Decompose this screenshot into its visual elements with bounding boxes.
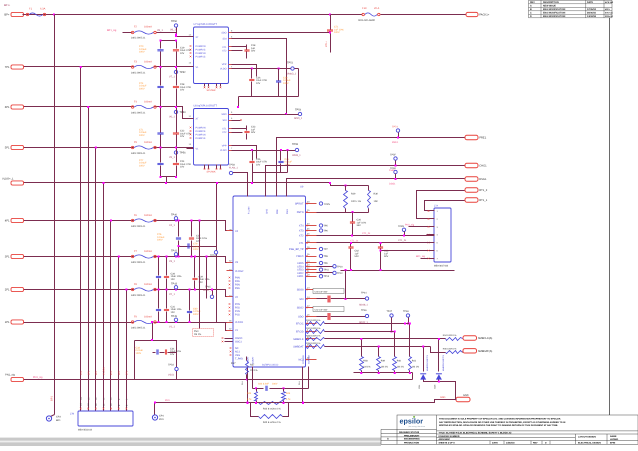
capacitor C70 0.01uF 100V xyxy=(160,41,162,49)
test point TP47 xyxy=(390,314,393,317)
svg-text:SDO8: SDO8 xyxy=(297,289,304,292)
connector 1P1 xyxy=(11,320,24,324)
svg-text:100V: 100V xyxy=(136,352,142,355)
resistor R42 6 mOhm 1% xyxy=(259,402,283,405)
test point TP7 xyxy=(319,247,322,250)
test point TP59 DSG1 xyxy=(394,170,397,173)
svg-text:XT1_2s: XT1_2s xyxy=(398,239,407,242)
svg-text:EFIM: EFIM xyxy=(610,442,615,445)
op-amp U8 bq76PL102RGTT charge pump IC xyxy=(194,109,229,166)
svg-text:SDI: SDI xyxy=(223,38,227,41)
pin VSS stub xyxy=(216,165,218,169)
wire U7 return right xyxy=(298,69,300,97)
svg-text:VLDO+_1: VLDO+_1 xyxy=(2,178,14,181)
svg-text:XT2: XT2 xyxy=(222,131,227,134)
capacitor C23 1uF 50V xyxy=(232,128,247,130)
wire RT1_2 to J7A pin 2 xyxy=(417,191,465,219)
svg-text:TP52: TP52 xyxy=(180,71,187,74)
wire diode GND path xyxy=(424,380,457,400)
pin PUMP1N mark xyxy=(190,52,192,54)
svg-text:GND: GND xyxy=(440,396,446,399)
svg-text:DSG1: DSG1 xyxy=(479,178,487,181)
svg-text:5P1: 5P1 xyxy=(95,370,98,375)
svg-text:1M 1%: 1M 1% xyxy=(194,333,201,336)
pin PUMP1S mark xyxy=(190,137,192,139)
svg-text:V3_1: V3_1 xyxy=(169,260,175,263)
svg-text:MMBZ5232B7TG: MMBZ5232B7TG xyxy=(442,354,445,371)
svg-text:50V: 50V xyxy=(355,255,360,258)
svg-text:COPACK: COPACK xyxy=(308,354,311,364)
pin VSS stub xyxy=(204,84,206,87)
svg-text:4030216SC: 4030216SC xyxy=(439,438,451,441)
svg-text:VPP: VPP xyxy=(222,63,227,66)
svg-text:R34 100R 1%: R34 100R 1% xyxy=(443,334,457,337)
fuse F4 160mA xyxy=(134,105,154,110)
wire U8 VLDO to TP55 xyxy=(232,150,296,152)
wire U8 SDO xyxy=(232,114,287,116)
svg-text:DESCRIPTION: DESCRIPTION xyxy=(543,1,559,4)
svg-text:PS3: PS3 xyxy=(194,330,199,333)
svg-text:TP44: TP44 xyxy=(361,291,367,294)
svg-text:SDO: SDO xyxy=(221,113,226,116)
svg-text:A: A xyxy=(387,438,389,441)
fuse F8 160mA xyxy=(134,287,154,292)
connector J7A M50-3017442 xyxy=(434,208,451,262)
svg-text:V7_1: V7_1 xyxy=(169,76,175,79)
svg-text:PUMP1S: PUMP1S xyxy=(196,137,206,140)
svg-text:BP1_sig: BP1_sig xyxy=(107,29,117,32)
svg-text:BP+: BP+ xyxy=(4,14,10,17)
wire XT1_1s rail xyxy=(317,242,435,244)
svg-text:BT1+: BT1+ xyxy=(325,41,328,47)
capacitor C25 10uF X7R 10V xyxy=(252,151,254,161)
svg-text:SDO8_1: SDO8_1 xyxy=(359,304,369,307)
svg-text:TP40: TP40 xyxy=(171,213,178,216)
connector RT1_1 xyxy=(465,198,478,202)
svg-text:TP47: TP47 xyxy=(387,310,393,313)
wire BP1_sig stub xyxy=(123,32,133,34)
op-amp U9 bq78PL114S12 battery management IC xyxy=(233,196,306,367)
svg-text:6.3A: 6.3A xyxy=(40,8,46,11)
test point TPP6 XT1_2s xyxy=(402,228,405,231)
test point TPP5 xyxy=(319,202,322,205)
resistor R41 1M 1% xyxy=(409,324,411,357)
svg-text:R29: R29 xyxy=(351,193,356,196)
test point TP56 V5_1 xyxy=(176,148,178,151)
svg-text:M50-3511442: M50-3511442 xyxy=(78,429,93,432)
svg-text:MMBZ5232B7TG: MMBZ5232B7TG xyxy=(426,354,429,371)
capacitor C29 0.01uF 100V xyxy=(278,69,280,81)
svg-text:RT1_2: RT1_2 xyxy=(479,189,488,192)
resistor R37 1M 1% xyxy=(246,357,248,361)
svg-text:3P1: 3P1 xyxy=(5,256,10,259)
connector PRE1 xyxy=(465,135,478,139)
pin U9 OSCO stub xyxy=(225,338,233,340)
svg-text:R40: R40 xyxy=(397,360,402,363)
capacitor C30 1nF 50V inline xyxy=(327,296,331,303)
component PS3 1M 1% xyxy=(193,329,214,337)
test point TP51 Vldo3_1 xyxy=(291,67,294,70)
svg-text:P_LAN: P_LAN xyxy=(248,206,251,214)
svg-text:TP54: TP54 xyxy=(295,108,302,111)
svg-text:TP59: TP59 xyxy=(390,167,396,170)
capacitor C76 0.01uF 100V xyxy=(178,221,180,237)
svg-text:6P1: 6P1 xyxy=(5,106,10,109)
svg-text:SPL/WK: SPL/WK xyxy=(207,171,216,174)
svg-text:TP5F: TP5F xyxy=(390,154,396,157)
svg-text:R41: R41 xyxy=(412,360,417,363)
wire pulldown bottom rail xyxy=(354,372,413,374)
svg-text:REV: REV xyxy=(533,442,538,445)
svg-text:| the energy that drives: | the energy that drives xyxy=(408,425,425,428)
svg-text:U9: U9 xyxy=(300,186,304,189)
vertical page border line xyxy=(609,18,611,415)
wire 3P1 drop to J7B pin 9 xyxy=(118,257,120,411)
svg-text:XT: XT xyxy=(196,36,200,39)
svg-text:160mA: 160mA xyxy=(144,283,152,286)
capacitor C64 0.2nF xyxy=(253,388,264,390)
capacitor C32 1nF 50V inline xyxy=(327,313,331,320)
pin U9 P4N mark xyxy=(229,277,231,279)
svg-text:3402.0005.11: 3402.0005.11 xyxy=(131,294,146,297)
svg-text:M50-3017442: M50-3017442 xyxy=(434,265,449,268)
svg-text:C64 0.2nF: C64 0.2nF xyxy=(258,383,269,386)
connector 4P1 xyxy=(11,218,24,222)
svg-text:5P1: 5P1 xyxy=(5,147,10,150)
svg-text:160mA: 160mA xyxy=(144,250,152,253)
svg-text:SHEETS 2 OF 8: SHEETS 2 OF 8 xyxy=(439,442,456,445)
svg-text:SDI: SDI xyxy=(223,119,227,122)
test point TP10 xyxy=(317,266,333,268)
svg-text:TP74: TP74 xyxy=(392,126,398,129)
wire U8 SDI stub xyxy=(232,120,241,122)
svg-text:R43 6 mOhm 1%: R43 6 mOhm 1% xyxy=(263,421,281,424)
wire SDO row xyxy=(317,316,366,318)
capacitor C31 10uF 10% 10V xyxy=(166,290,168,309)
wire U7 VLDO to TP51 xyxy=(232,68,299,70)
wire CGBAT/COBAT drops xyxy=(247,373,249,403)
svg-text:R33=100R 1%: R33=100R 1% xyxy=(306,335,320,338)
svg-text:VLDO1: VLDO1 xyxy=(235,321,244,324)
svg-text:ENG MODIFICATION: ENG MODIFICATION xyxy=(543,12,566,15)
svg-text:3402.0005.11: 3402.0005.11 xyxy=(131,225,146,228)
test point TP46 SDO2_1 xyxy=(365,314,368,317)
svg-text:SMBCLK(A): SMBCLK(A) xyxy=(478,337,493,340)
test point TP55 Vdd3_1 xyxy=(295,148,298,151)
svg-text:10V: 10V xyxy=(171,278,176,281)
capacitor C63 1uF 50V xyxy=(380,243,382,247)
test point TP5 xyxy=(319,224,322,227)
svg-text:TP48: TP48 xyxy=(403,310,409,313)
pin VSS stub xyxy=(220,84,222,87)
wire XT1_2s rail xyxy=(317,235,435,237)
resistor R44 4.7k xyxy=(256,389,258,392)
capacitor C24 10uF X7R xyxy=(176,148,178,163)
svg-text:TP11: TP11 xyxy=(324,269,330,272)
connector J7B M50-3511442 xyxy=(78,411,133,426)
resistor R36 100R 1% xyxy=(431,347,446,353)
svg-text:J7A: J7A xyxy=(434,204,439,207)
pin J7B 10 xyxy=(110,408,112,410)
svg-text:160mA: 160mA xyxy=(144,141,152,144)
wire 2P1 drop to J7B pin 8 xyxy=(126,290,128,411)
svg-text:100V: 100V xyxy=(139,51,145,54)
svg-text:OSC1: OSC1 xyxy=(235,341,242,344)
wire pullup bottoms xyxy=(346,212,369,214)
svg-text:PRE: PRE xyxy=(276,209,279,214)
wire DSG net xyxy=(287,179,465,197)
capacitor C71 1uF 100V xyxy=(330,15,332,30)
capacitor C22 10uF X7R xyxy=(176,107,178,133)
wire SDI chain vertical xyxy=(345,271,347,299)
resistor R35 100R 1% xyxy=(306,345,325,349)
svg-text:TPh1: TPh1 xyxy=(210,254,216,257)
pin U9 P3S mark xyxy=(229,287,231,289)
svg-text:C32 1nF 50V: C32 1nF 50V xyxy=(315,308,328,311)
svg-text:0025.020.ABCP: 0025.020.ABCP xyxy=(358,19,376,22)
svg-text:10V: 10V xyxy=(180,89,185,92)
svg-text:V8_1: V8_1 xyxy=(157,29,163,32)
pin PUMP2S mark xyxy=(190,49,192,51)
svg-text:XT2: XT2 xyxy=(299,235,304,238)
svg-text:TP5d: TP5d xyxy=(168,363,174,366)
resistor R29 100k 1% xyxy=(345,186,347,191)
svg-text:XT4: XT4 xyxy=(299,225,304,228)
capacitor C18 1uF 50V xyxy=(232,46,247,48)
wire RT1_1 to J7A pin 1 xyxy=(425,201,465,211)
svg-text:TP6: TP6 xyxy=(324,230,329,233)
wire 4P1 row xyxy=(23,221,233,231)
svg-text:100V: 100V xyxy=(193,313,199,316)
svg-text:TP10: TP10 xyxy=(337,265,343,268)
svg-text:10V: 10V xyxy=(180,166,185,169)
test point TP53 V6_1 xyxy=(176,107,178,111)
op-amp U7 bq76PL102RGTT charge pump IC xyxy=(194,27,229,84)
title block xyxy=(381,415,638,444)
pin J7A 7 xyxy=(427,258,435,260)
svg-text:3402.0005.11: 3402.0005.11 xyxy=(131,37,146,40)
svg-text:TP45: TP45 xyxy=(205,286,211,289)
capacitor C32 value box xyxy=(313,307,344,312)
capacitor C26 1uF 35V xyxy=(352,213,354,222)
wire VLDO1 drop to J7B pin 11 xyxy=(103,183,105,411)
svg-text:2P1: 2P1 xyxy=(126,370,129,375)
svg-text:CHG1: CHG1 xyxy=(479,165,487,168)
svg-text:TP46: TP46 xyxy=(361,309,367,312)
pin J7A 2 xyxy=(427,218,435,220)
fuse F19 20A xyxy=(362,13,364,15)
wire gap4 return rail xyxy=(161,176,177,178)
wire U7 cell return xyxy=(239,96,299,98)
svg-text:100V: 100V xyxy=(139,87,145,90)
svg-text:4P1: 4P1 xyxy=(110,370,113,375)
connector GND xyxy=(456,397,470,401)
svg-text:R36 100R 1%: R36 100R 1% xyxy=(443,347,457,350)
svg-text:10V: 10V xyxy=(171,311,176,314)
wire J7A pin6 xyxy=(381,250,427,252)
capacitor C3h 0.01uF blue xyxy=(158,290,160,309)
wire VLDO rail to pullups xyxy=(331,183,369,186)
resistor R32 100R 1% xyxy=(306,330,325,334)
pin J7B 9 xyxy=(118,408,120,410)
wire PRE net xyxy=(277,138,465,197)
svg-text:BP1: BP1 xyxy=(51,396,54,401)
pin U9 OSC1 stub xyxy=(225,341,233,343)
svg-text:DATE: DATE xyxy=(587,1,594,4)
svg-text:CCPACK: CCPACK xyxy=(302,355,305,364)
svg-text:10K: 10K xyxy=(374,200,379,203)
svg-text:V1_1: V1_1 xyxy=(169,326,175,329)
pin VSS stub xyxy=(208,165,210,169)
connector 6P1 xyxy=(11,105,24,109)
svg-text:R4h: R4h xyxy=(247,392,252,395)
svg-text:LAYOUT DESIGN: LAYOUT DESIGN xyxy=(578,435,596,438)
wire 7P1 row xyxy=(23,66,183,68)
svg-text:PN1_sig: PN1_sig xyxy=(5,373,15,376)
svg-text:XT1: XT1 xyxy=(299,242,304,245)
svg-text:7P1: 7P1 xyxy=(5,66,10,69)
wire BP1 bus xyxy=(54,15,56,415)
capacitor C33 box xyxy=(135,341,177,380)
capacitor C29b 10uF 10V xyxy=(194,257,196,278)
pin J7A 3 xyxy=(427,226,435,228)
svg-text:bq78PL114S12: bq78PL114S12 xyxy=(262,363,279,366)
svg-text:P1S: P1S xyxy=(235,314,240,317)
test point CP3 BP1 xyxy=(51,415,55,417)
svg-text:NEW ISSUE: NEW ISSUE xyxy=(543,5,556,8)
capacitor C62 1uF 50V xyxy=(350,243,352,247)
svg-text:100V: 100V xyxy=(139,134,145,137)
svg-text:14/02/18: 14/02/18 xyxy=(506,442,515,445)
wire 6P1 row xyxy=(23,107,194,119)
svg-text:DSG: DSG xyxy=(286,209,289,214)
wire sense line TP45 xyxy=(206,257,208,299)
fuse F1 6.3A xyxy=(23,14,27,16)
svg-text:FG7: FG7 xyxy=(231,362,236,365)
pin PUMP2N mark xyxy=(190,45,192,47)
wire sense line PS3 xyxy=(199,221,201,329)
svg-text:SDO: SDO xyxy=(221,32,226,35)
test point CP4 PN1 xyxy=(154,403,156,415)
svg-text:3402.0005.11: 3402.0005.11 xyxy=(131,327,146,330)
resistor R38 1M 1% xyxy=(361,339,363,357)
svg-text:TP9: TP9 xyxy=(324,262,329,265)
svg-text:SDO2: SDO2 xyxy=(297,307,304,310)
svg-text:PSH_BP_TP: PSH_BP_TP xyxy=(289,248,304,251)
svg-text:REV: REV xyxy=(530,1,535,4)
test point TP13 xyxy=(319,275,322,278)
wire VLDO row xyxy=(23,182,331,184)
svg-text:PRE1: PRE1 xyxy=(479,137,487,140)
capacitor C80 0.01uF blue xyxy=(158,257,160,276)
svg-text:3402.0005.11: 3402.0005.11 xyxy=(131,152,146,155)
wire 6P1 drop to J7B pin 13 xyxy=(88,107,90,411)
svg-text:U7 bq76PL102RGTT: U7 bq76PL102RGTT xyxy=(194,23,218,26)
pin U9 P1S mark xyxy=(229,314,231,316)
pin J7B 12 xyxy=(95,408,97,410)
svg-text:TP55: TP55 xyxy=(292,143,299,146)
svg-text:RSTN: RSTN xyxy=(297,211,304,214)
connector 3P1 xyxy=(11,254,24,258)
pin J7A 1 xyxy=(427,210,435,212)
wire 1P1 row xyxy=(23,323,233,331)
svg-text:PN1: PN1 xyxy=(159,418,164,421)
wire PN1_sig row / VSS rail xyxy=(23,379,413,381)
svg-text:VLDO: VLDO xyxy=(220,68,227,71)
connector BP+ xyxy=(11,12,24,16)
capacitor C30 value box xyxy=(313,289,344,294)
capacitor C7L 0.01uF 100V xyxy=(160,107,162,133)
svg-text:1M 1%: 1M 1% xyxy=(381,366,388,369)
svg-text:100V: 100V xyxy=(157,239,163,242)
svg-text:R39: R39 xyxy=(381,360,386,363)
wire 7P1 to U7 V1 xyxy=(183,66,194,68)
capacitor C2h 10uF X7R 10V xyxy=(251,69,253,79)
svg-text:TP7: TP7 xyxy=(324,248,329,251)
svg-text:R30: R30 xyxy=(374,193,379,196)
node C71 junction xyxy=(329,14,331,16)
svg-text:160mA: 160mA xyxy=(144,26,152,29)
svg-text:V6_1: V6_1 xyxy=(169,116,175,119)
svg-text:ENG MODIFICATION: ENG MODIFICATION xyxy=(543,8,566,11)
pin J7A 4 xyxy=(427,234,435,236)
pin VSS stub xyxy=(216,84,218,87)
wire CCPACK/COPACK drops xyxy=(302,373,304,403)
svg-text:PRELIMINARY: PRELIMINARY xyxy=(404,434,420,437)
svg-text:NAME: NAME xyxy=(610,435,617,438)
svg-text:R42 6 mOhm 1%: R42 6 mOhm 1% xyxy=(263,408,281,411)
svg-text:TP12: TP12 xyxy=(337,272,343,275)
svg-text:SDO: SDO xyxy=(298,316,303,319)
svg-text:CHG: CHG xyxy=(266,209,269,214)
test point TP48 xyxy=(406,314,409,317)
test point TP5F CHG1 xyxy=(394,157,397,160)
pin U9 P2N mark xyxy=(229,303,231,305)
svg-text:EFCIC: EFCIC xyxy=(296,323,304,326)
svg-text:PACK1+: PACK1+ xyxy=(479,14,490,17)
svg-text:TPP6: TPP6 xyxy=(398,225,405,228)
svg-text:1M 1%: 1M 1% xyxy=(397,366,404,369)
svg-text:BP1_sig: BP1_sig xyxy=(416,255,426,258)
test point TP74 PRE1 xyxy=(396,129,399,132)
fuse F9 160mA xyxy=(134,320,154,325)
wire V8_1 to U7 XT xyxy=(177,33,194,37)
page edge strip xyxy=(0,438,381,446)
connector SMBDAT(A) xyxy=(463,349,477,353)
svg-text:R31=100R 1%: R31=100R 1% xyxy=(306,319,320,322)
svg-text:TP49: TP49 xyxy=(171,315,178,318)
svg-text:TP50: TP50 xyxy=(171,20,178,23)
diode D14 MMBZ5232B xyxy=(423,347,425,372)
svg-text:TP43: TP43 xyxy=(171,282,178,285)
svg-text:VSS1: VSS1 xyxy=(168,373,175,376)
capacitor C28 10uF X7R xyxy=(176,67,178,86)
svg-text:3402.0005.11: 3402.0005.11 xyxy=(131,261,146,264)
capacitor C74 0.01uF 100V xyxy=(160,67,162,86)
svg-text:GND: GND xyxy=(463,394,469,397)
svg-text:35V: 35V xyxy=(357,224,362,227)
connector 2P1 xyxy=(11,287,24,291)
svg-text:V4_1: V4_1 xyxy=(169,224,175,227)
pin U9 P2S mark xyxy=(229,307,231,309)
resistor R39 1M 1% xyxy=(378,347,380,357)
svg-text:6P1: 6P1 xyxy=(87,370,90,375)
fuse F3 160mA xyxy=(134,65,154,70)
pin J7B 13 xyxy=(87,408,89,410)
capacitor C2b 0.01uF 100V xyxy=(280,151,282,161)
svg-text:TPP5: TPP5 xyxy=(324,203,331,206)
pin VSS stub xyxy=(220,165,222,169)
